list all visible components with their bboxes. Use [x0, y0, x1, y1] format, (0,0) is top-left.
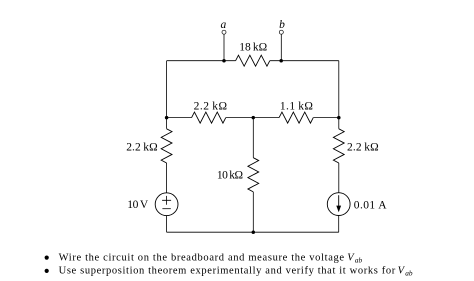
svg-text:b: b — [279, 19, 285, 31]
svg-text:ab: ab — [355, 255, 363, 264]
terminal a circle — [222, 30, 226, 34]
svg-text:2.2 kΩ: 2.2 kΩ — [347, 141, 379, 153]
wire right rail below mid — [338, 118, 340, 129]
wire top-left segment — [167, 60, 236, 62]
node bottom-center dot — [252, 230, 256, 234]
isource arrow — [338, 195, 340, 206]
wire mid-left lead — [167, 117, 192, 119]
svg-text:ab: ab — [405, 269, 413, 278]
wire top-right segment — [270, 60, 339, 62]
svg-text:10 V: 10 V — [127, 199, 149, 211]
wire mid-left to center — [226, 117, 254, 119]
isource arrowhead — [336, 206, 341, 213]
node center-mid dot — [252, 116, 256, 120]
svg-text:18 kΩ: 18 kΩ — [239, 42, 267, 54]
voltage source V1 circle — [155, 193, 178, 216]
terminal a stub — [223, 34, 225, 61]
resistor R2 2.2k horizontal zigzag — [192, 112, 226, 123]
terminal b stub — [280, 34, 282, 61]
node left-mid dot — [165, 116, 169, 120]
wire vsource to bottom — [166, 216, 168, 233]
bullet 1 — [45, 256, 49, 260]
node b dot — [279, 59, 283, 63]
wire isource to bottom — [338, 216, 340, 233]
node a dot — [222, 59, 226, 63]
svg-text:0.01 A: 0.01 A — [354, 199, 387, 211]
svg-text:2.2 kΩ: 2.2 kΩ — [194, 100, 227, 112]
wire left rail upper — [166, 61, 168, 118]
svg-text:Use superposition theorem expe: Use superposition theorem experimentally… — [59, 266, 396, 277]
wire right rail upper — [338, 61, 340, 118]
resistor R6 2.2k right vertical zigzag — [333, 129, 344, 163]
svg-text:a: a — [221, 19, 227, 31]
wire left rail to vsource — [166, 163, 168, 193]
resistor R5 10k vertical zigzag — [248, 158, 259, 192]
bullet 2 — [45, 269, 49, 273]
wire center column lower — [252, 192, 254, 232]
resistor R1 18k zigzag — [236, 55, 270, 66]
node right-mid dot — [337, 116, 341, 120]
svg-text:2.2 kΩ: 2.2 kΩ — [126, 141, 158, 153]
current source I1 circle — [327, 193, 350, 216]
wire right rail to isource — [338, 163, 340, 193]
vsource minus sign — [162, 208, 170, 210]
svg-text:10 kΩ: 10 kΩ — [217, 170, 243, 182]
vsource plus sign — [162, 196, 171, 205]
wire bottom — [167, 231, 339, 233]
wire left rail below mid — [166, 118, 168, 129]
resistor R3 1.1k zigzag — [279, 112, 313, 123]
terminal b circle — [279, 30, 283, 34]
svg-text:1.1 kΩ: 1.1 kΩ — [280, 100, 313, 112]
wire center column upper — [252, 118, 254, 158]
wire 1.1k to right rail — [313, 117, 339, 119]
wire center to 1.1k — [253, 117, 279, 119]
resistor R4 2.2k left vertical zigzag — [161, 129, 172, 163]
svg-text:Wire the circuit on the breadb: Wire the circuit on the breadboard and m… — [59, 252, 345, 263]
